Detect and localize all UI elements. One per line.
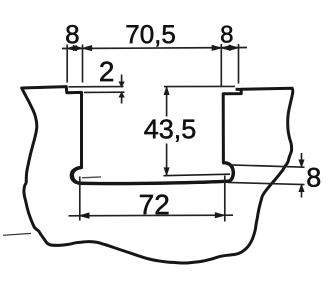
svg-text:72: 72 bbox=[139, 189, 170, 220]
svg-text:8: 8 bbox=[220, 21, 233, 48]
svg-text:8: 8 bbox=[306, 163, 321, 193]
svg-text:70,5: 70,5 bbox=[125, 19, 176, 49]
svg-text:2: 2 bbox=[99, 56, 115, 87]
svg-text:43,5: 43,5 bbox=[144, 114, 197, 144]
svg-text:8: 8 bbox=[65, 19, 79, 49]
